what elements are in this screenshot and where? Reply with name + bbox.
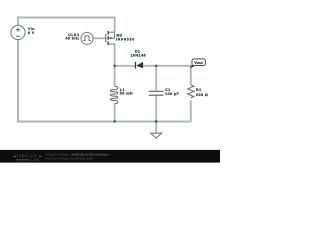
wire R1 leads (190, 66, 192, 122)
wire Vin bottom lead and bottom ground rail (18, 40, 191, 122)
transistor M3 drain stub (109, 43, 115, 46)
voltage source plus sign (16, 28, 20, 32)
logo squiggle line (16, 159, 29, 161)
transistor M3 gate bar (105, 34, 107, 43)
voltage source V1 circle (11, 25, 25, 39)
clock square wave glyph (83, 36, 90, 41)
svg-text:40 kHz: 40 kHz (65, 36, 79, 40)
wire C1 leads (155, 66, 157, 122)
wire M3 drain to node A (114, 44, 116, 66)
logo right wing line (39, 155, 42, 157)
svg-text:50 mH: 50 mH (120, 92, 133, 96)
svg-text:6 V: 6 V (28, 31, 35, 35)
diode D1 triangle (136, 62, 143, 69)
wire diode anode to output node (143, 65, 191, 67)
wire top rail from Vin to M3 source (18, 18, 115, 33)
svg-text:200 Ω: 200 Ω (196, 93, 208, 97)
node L1 bottom junction dot (113, 120, 115, 122)
resistor R1 zigzag (188, 85, 194, 98)
transistor M3 body tie vertical (114, 32, 116, 38)
probe Vout tail (190, 65, 197, 69)
node C1 top junction dot (155, 65, 157, 67)
ground symbol triangle (151, 133, 162, 138)
transistor M3 channel bars (107, 31, 109, 45)
inductor L1 coil (110, 86, 117, 103)
svg-text:R1: R1 (196, 88, 202, 92)
node ground junction dot (155, 120, 157, 122)
logo left wing line (13, 155, 16, 157)
node A junction dot (113, 65, 115, 67)
probe Vout balloon (192, 59, 205, 66)
diode D1 cathode bar (135, 62, 137, 69)
voltage source minus sign (16, 35, 20, 37)
wire clock to gate (93, 37, 105, 39)
svg-text:LAB: LAB (31, 158, 40, 162)
transistor M3 source stub (109, 31, 115, 33)
capacitor C1 plates (149, 91, 164, 95)
transistor M3 body arrow (110, 37, 113, 39)
svg-text:100 µF: 100 µF (165, 92, 179, 96)
svg-text:http://circuitlab.com/c/f48ccd: http://circuitlab.com/c/f48ccd8ab (45, 157, 93, 161)
svg-text:Vout: Vout (194, 61, 203, 65)
transistor M3 body stub (109, 37, 115, 39)
wire node A to diode cathode (115, 65, 136, 67)
wire L1 leads (114, 66, 116, 122)
clock source CLK1 circle (81, 32, 93, 44)
svg-text:1N4148: 1N4148 (131, 53, 146, 57)
svg-text:IRF9530: IRF9530 (116, 37, 135, 41)
footer bar (0, 150, 220, 163)
wire ground stem (155, 122, 157, 134)
